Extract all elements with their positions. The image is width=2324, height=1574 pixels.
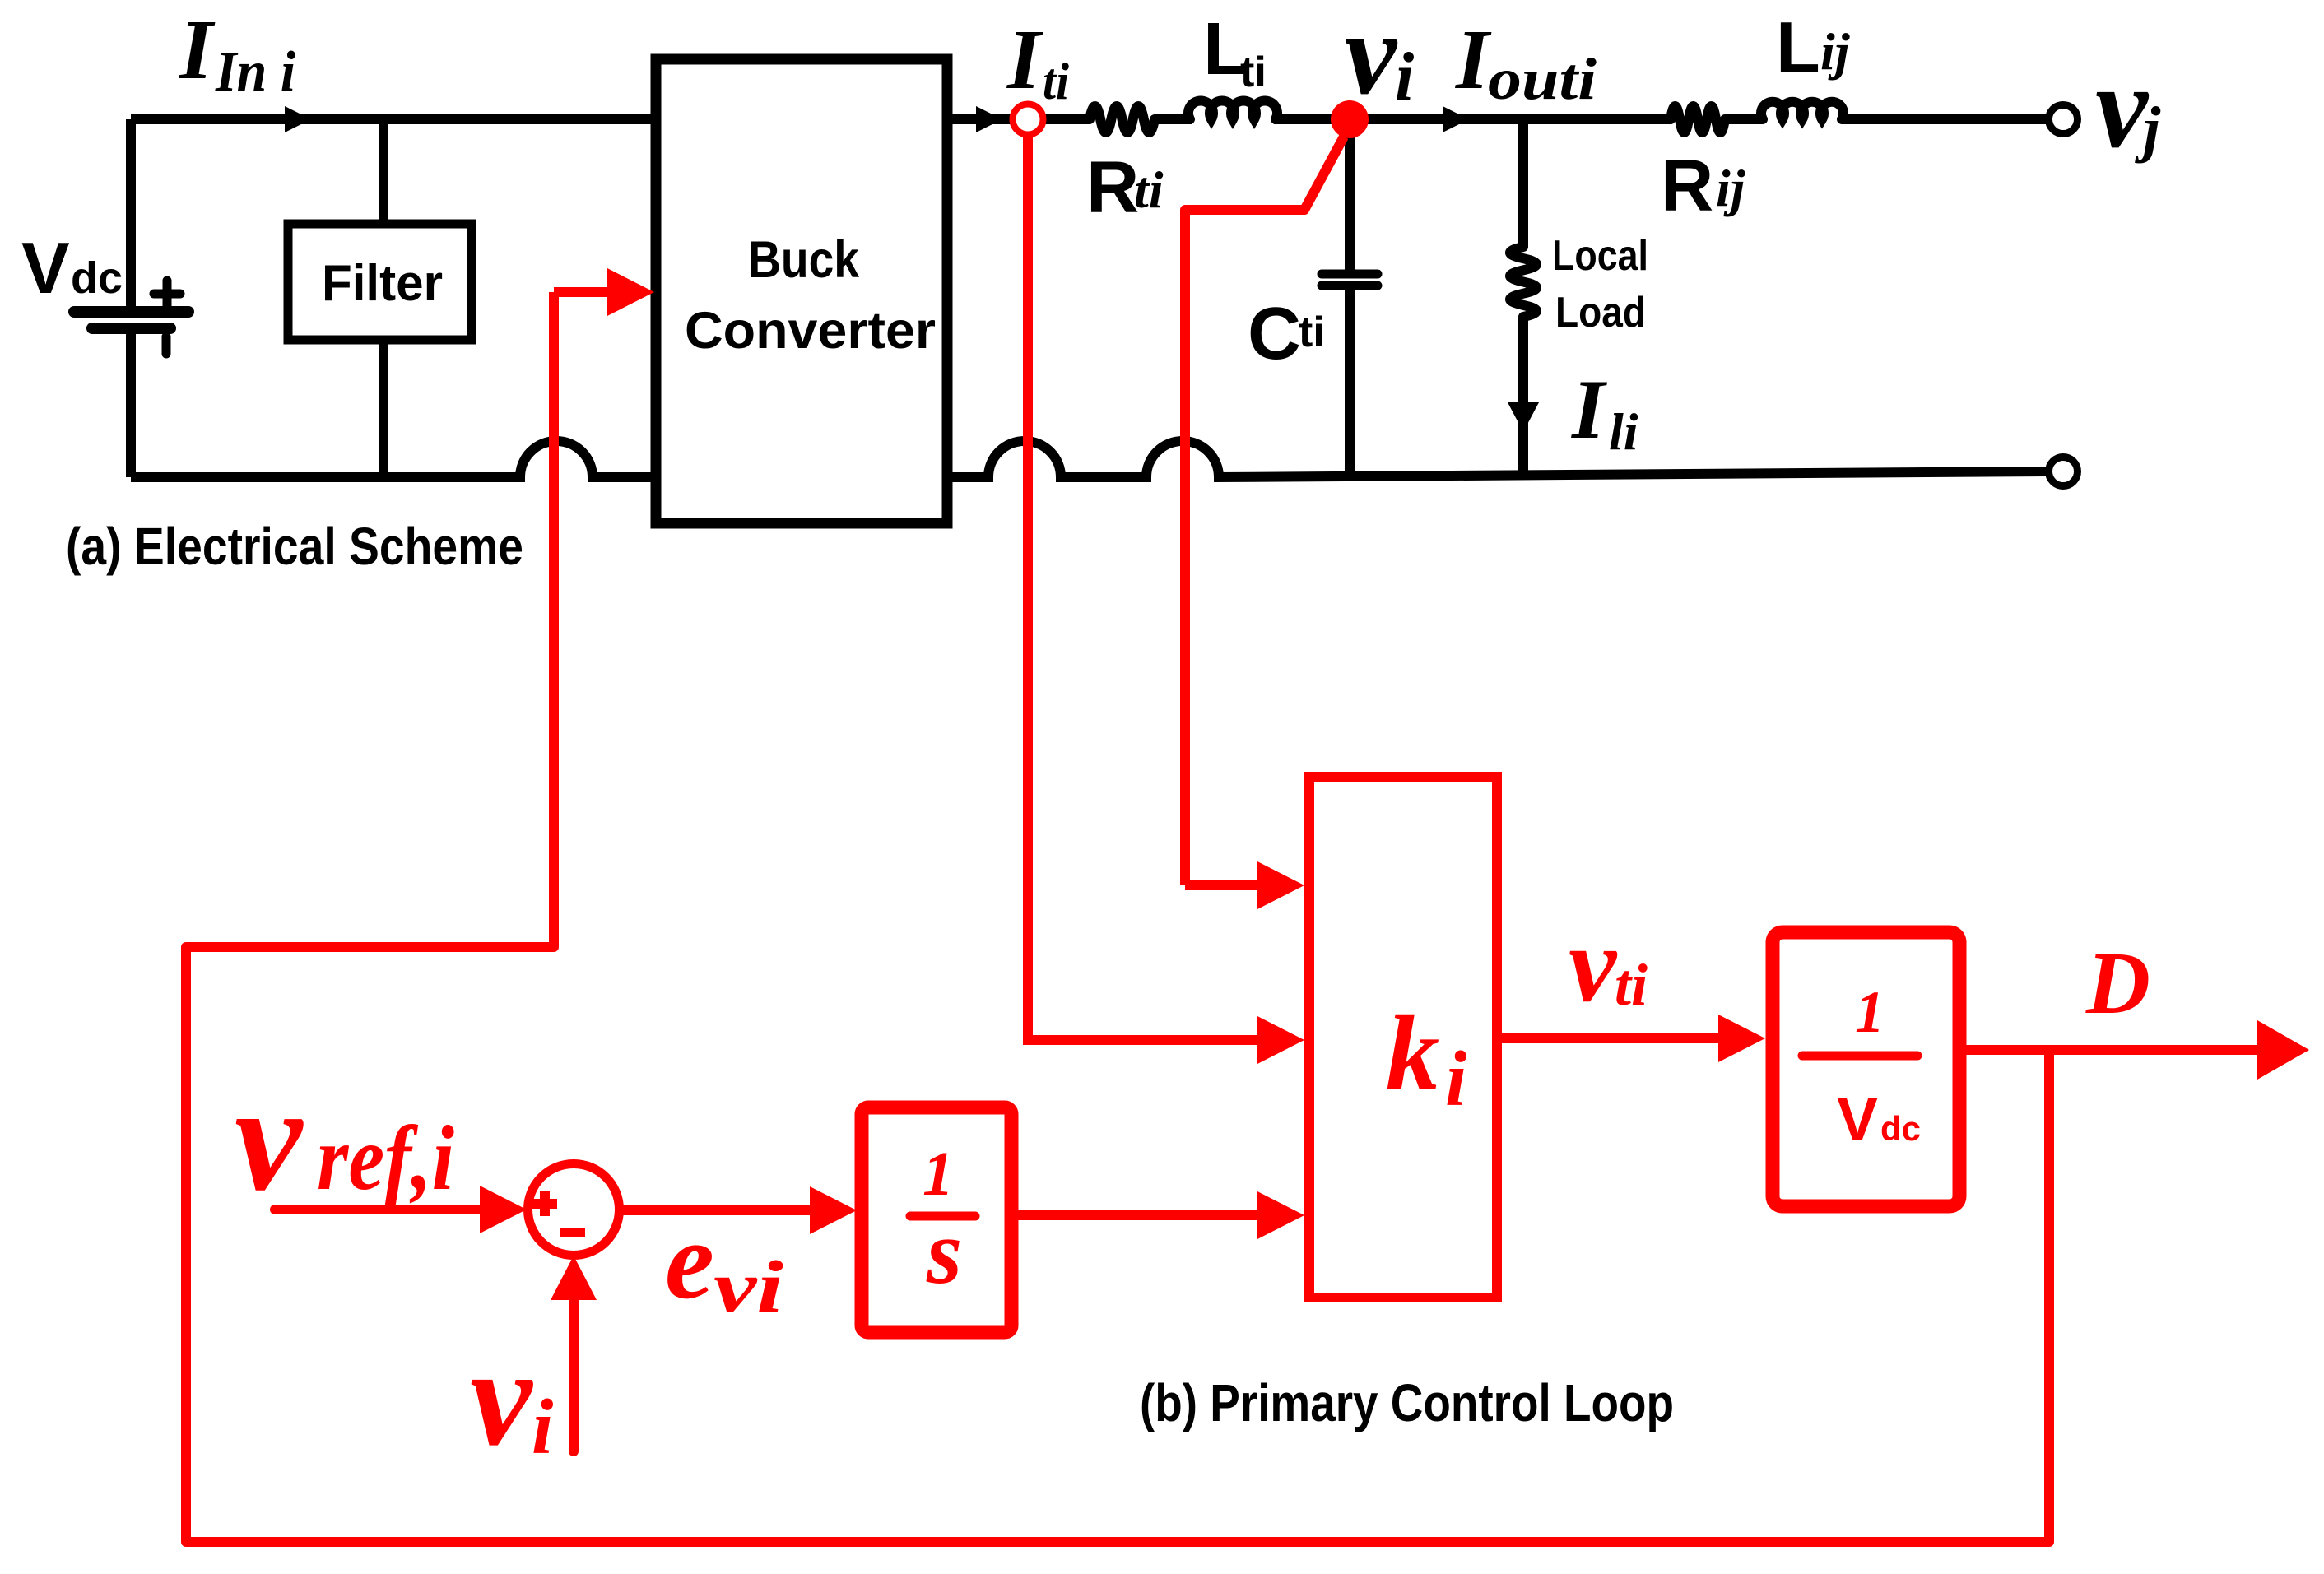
svg-text:ref,i: ref,i [317, 1107, 454, 1210]
bottom wire right segment with hops [947, 441, 2048, 477]
svg-text:s: s [926, 1202, 962, 1303]
battery long plate (+) [74, 306, 188, 318]
svg-text:V: V [1837, 1084, 1878, 1154]
red wire vi sense horizontal into ki [1185, 880, 1262, 890]
wire Lti to node vi and onward to Rij [1274, 114, 1671, 124]
battery Vdc source: left vertical wire [126, 119, 136, 307]
svg-text:ti: ti [1299, 309, 1325, 356]
node vi red dot [1331, 100, 1369, 138]
battery minus tick [162, 337, 171, 354]
red wire sum output to 1/s [619, 1205, 813, 1215]
terminal circle bottom [2049, 457, 2078, 486]
battery bottom lead [126, 332, 136, 477]
inductor Lti [1188, 101, 1277, 119]
inductor Lij [1761, 102, 1843, 119]
svg-text:ti: ti [1134, 160, 1164, 219]
capacitor bottom plate [1322, 281, 1378, 290]
svg-text:I: I [178, 2, 216, 97]
red wire vi input to summing junction [569, 1298, 579, 1451]
wire Rti to Lti [1155, 114, 1192, 124]
battery plus sign [154, 281, 180, 307]
svg-text:1: 1 [923, 1140, 954, 1209]
red wire Iti sense horizontal into ki [1023, 1035, 1262, 1045]
svg-text:Load: Load [1555, 289, 1646, 337]
red wire feedback vertical at x=673 [186, 292, 2049, 1542]
resistor Rij [1671, 106, 1725, 132]
svg-text:li: li [1609, 402, 1638, 461]
wire filter bottom tap [379, 340, 388, 477]
svg-text:v: v [1569, 905, 1618, 1024]
battery short plate (-) [92, 323, 170, 334]
svg-text:ij: ij [1716, 159, 1745, 217]
svg-text:dc: dc [1880, 1109, 1921, 1148]
red wire vref input [275, 1205, 481, 1214]
svg-text:R: R [1661, 144, 1713, 226]
svg-text:Local: Local [1552, 232, 1648, 280]
bottom wire left segment with hop over red wire [131, 441, 656, 477]
local load resistor [1510, 247, 1536, 317]
svg-text:(a) Electrical Scheme: (a) Electrical Scheme [66, 517, 523, 576]
svg-text:i: i [1445, 1035, 1466, 1122]
svg-text:L: L [1776, 7, 1820, 88]
svg-text:Buck: Buck [748, 231, 860, 289]
svg-text:dc: dc [71, 253, 123, 303]
wire Iti to Rti [1045, 114, 1090, 124]
plus sign in summing junction [532, 1191, 557, 1216]
svg-text:D: D [2085, 935, 2150, 1033]
svg-text:ti: ti [1615, 952, 1648, 1018]
capacitor Cti top lead [1345, 119, 1355, 274]
gain ki box [1309, 777, 1497, 1298]
arrow I_outi [1443, 106, 1469, 132]
local load bottom lead [1518, 317, 1528, 474]
capacitor bottom lead [1345, 286, 1355, 476]
resistor Rti [1090, 106, 1155, 132]
red wire vi sense: diagonal, horizontal, vertical down to ki [1185, 137, 1344, 885]
svg-text:ij: ij [1820, 22, 1850, 81]
current arrow I_In i [285, 106, 311, 132]
red wire D feedback to Buck: arrow into Buck [554, 287, 611, 297]
svg-text:Filter: Filter [322, 255, 443, 312]
local load top lead [1518, 119, 1528, 247]
terminal circle vj top [2049, 105, 2078, 134]
svg-text:C: C [1248, 293, 1301, 375]
arrow Buck output [976, 106, 1002, 132]
svg-text:i: i [1395, 39, 1414, 115]
summing junction circle [528, 1164, 620, 1256]
block 1/Vdc box [1773, 932, 1959, 1206]
svg-text:ti: ti [1240, 49, 1267, 96]
wire Lij to terminal vj [1843, 114, 2048, 124]
svg-text:(b) Primary Control Loop: (b) Primary Control Loop [1140, 1373, 1674, 1432]
filter box [288, 224, 472, 340]
svg-text:vi: vi [713, 1247, 783, 1328]
red wire ki output to 1/Vdc [1502, 1033, 1720, 1043]
svg-text:e: e [665, 1200, 714, 1322]
svg-text:v: v [470, 1320, 533, 1474]
node Iti red open circle [1013, 104, 1043, 135]
integrator 1/s box [862, 1107, 1011, 1332]
wire Buck output [947, 114, 1011, 124]
wire filter top tap [379, 119, 388, 225]
svg-text:V: V [21, 227, 70, 309]
red wire 1/s output to ki [1018, 1210, 1262, 1220]
svg-text:R: R [1086, 146, 1139, 228]
arrow I_li down [1508, 402, 1539, 432]
red wire D output [1959, 1045, 2259, 1055]
svg-text:outi: outi [1488, 46, 1597, 112]
svg-text:v: v [2095, 42, 2150, 173]
svg-text:Converter: Converter [685, 302, 936, 360]
svg-text:v: v [235, 1054, 304, 1223]
minus sign in summing junction [560, 1228, 585, 1237]
svg-text:i: i [532, 1383, 553, 1470]
svg-text:I: I [1006, 12, 1043, 107]
svg-text:k: k [1386, 994, 1439, 1112]
wire Rij to Lij [1725, 114, 1763, 124]
Buck Converter box [656, 59, 947, 523]
svg-text:1: 1 [1855, 979, 1885, 1045]
red wire Iti sense vertical [1023, 136, 1033, 1040]
svg-text:I: I [1454, 12, 1492, 107]
wire top from Vdc to Buck Converter [131, 114, 656, 124]
svg-text:ti: ti [1043, 52, 1069, 110]
svg-text:In i: In i [215, 40, 295, 104]
capacitor top plate [1322, 270, 1378, 279]
svg-text:I: I [1571, 363, 1607, 457]
